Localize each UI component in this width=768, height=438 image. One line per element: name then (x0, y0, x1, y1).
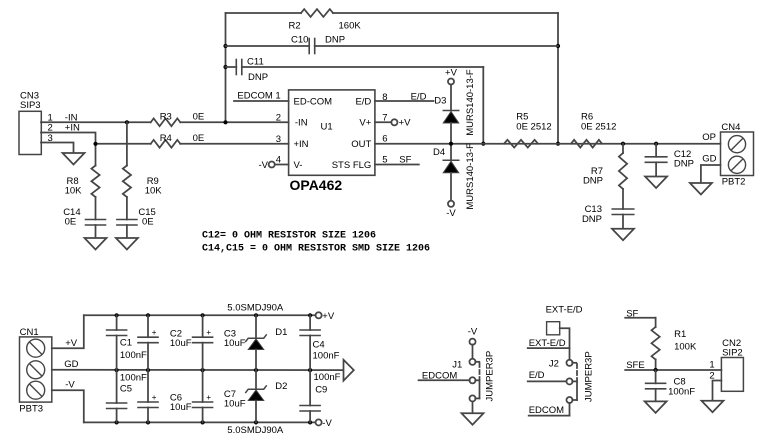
svg-text:OUT: OUT (351, 139, 371, 150)
svg-text:0E: 0E (193, 133, 205, 144)
svg-text:C1: C1 (120, 337, 132, 348)
svg-text:0E 2512: 0E 2512 (581, 121, 616, 132)
svg-text:D2: D2 (275, 381, 287, 392)
svg-text:V+: V+ (359, 117, 371, 128)
svg-text:EDCOM: EDCOM (529, 405, 564, 416)
svg-text:DNP: DNP (582, 214, 602, 225)
svg-text:C4: C4 (313, 340, 325, 351)
svg-text:-V: -V (322, 418, 332, 429)
svg-text:6: 6 (382, 134, 387, 145)
svg-text:+V: +V (399, 118, 412, 129)
svg-text:100K: 100K (674, 342, 697, 353)
svg-text:0E: 0E (142, 217, 154, 228)
svg-text:8: 8 (382, 92, 387, 103)
svg-text:0E: 0E (65, 217, 77, 228)
svg-text:+: + (152, 393, 157, 402)
svg-text:C10: C10 (291, 35, 308, 46)
svg-text:DNP: DNP (325, 35, 345, 46)
svg-text:CN1: CN1 (20, 327, 39, 338)
svg-text:5: 5 (382, 155, 387, 166)
svg-text:GD: GD (64, 359, 78, 370)
svg-text:0E 2512: 0E 2512 (516, 121, 551, 132)
svg-text:-V: -V (468, 327, 478, 338)
svg-text:ED-COM: ED-COM (294, 96, 333, 107)
svg-text:JUMPER3P: JUMPER3P (583, 351, 594, 402)
svg-text:100nF: 100nF (314, 372, 341, 383)
svg-text:+: + (206, 393, 211, 402)
svg-text:SIP2: SIP2 (722, 348, 743, 359)
svg-text:R3: R3 (160, 111, 172, 122)
svg-text:5.0SMDJ90A: 5.0SMDJ90A (227, 425, 284, 436)
svg-text:EXT-E/D: EXT-E/D (546, 305, 583, 316)
svg-text:5.0SMDJ90A: 5.0SMDJ90A (227, 303, 284, 314)
svg-text:160K: 160K (339, 21, 362, 32)
svg-text:U1: U1 (321, 122, 333, 133)
svg-text:7: 7 (382, 112, 387, 123)
svg-text:100nF: 100nF (120, 350, 147, 361)
svg-text:+: + (152, 328, 157, 337)
svg-text:D3: D3 (434, 96, 446, 107)
svg-text:R2: R2 (289, 21, 301, 32)
svg-text:+: + (206, 328, 211, 337)
svg-text:D1: D1 (275, 327, 287, 338)
svg-text:2: 2 (276, 112, 281, 123)
svg-text:3: 3 (48, 133, 53, 144)
svg-text:DNP: DNP (248, 72, 268, 83)
svg-text:1: 1 (709, 359, 714, 370)
svg-text:SF: SF (399, 155, 411, 166)
svg-text:10K: 10K (65, 185, 83, 196)
svg-text:CN4: CN4 (721, 122, 740, 133)
svg-text:OP: OP (702, 132, 716, 143)
svg-text:SF: SF (626, 309, 638, 320)
svg-text:10uF: 10uF (170, 402, 192, 413)
svg-text:C12= 0 OHM RESISTOR SIZE 1206: C12= 0 OHM RESISTOR SIZE 1206 (202, 231, 376, 242)
svg-text:V-: V- (294, 160, 303, 171)
svg-text:+V: +V (322, 311, 335, 322)
svg-text:-V: -V (259, 160, 269, 171)
svg-text:-IN: -IN (295, 117, 308, 128)
svg-text:EDCOM: EDCOM (422, 370, 457, 381)
svg-text:OPA462: OPA462 (290, 177, 343, 193)
svg-text:E/D: E/D (411, 91, 427, 102)
svg-text:3: 3 (276, 134, 281, 145)
svg-text:J1: J1 (452, 360, 462, 371)
svg-text:+IN: +IN (65, 123, 80, 134)
svg-text:SFE: SFE (626, 360, 644, 371)
svg-text:+IN: +IN (294, 139, 309, 150)
svg-text:C11: C11 (247, 57, 264, 68)
svg-text:MURS140-13-F: MURS140-13-F (465, 143, 476, 210)
svg-text:100nF: 100nF (313, 351, 340, 362)
svg-text:C5: C5 (120, 384, 132, 395)
svg-text:2: 2 (709, 370, 714, 381)
svg-text:-V: -V (446, 208, 456, 219)
svg-text:R1: R1 (674, 329, 686, 340)
svg-text:+V: +V (65, 338, 78, 349)
svg-text:DNP: DNP (674, 159, 694, 170)
svg-text:EXT-E/D: EXT-E/D (529, 338, 566, 349)
svg-text:GD: GD (702, 154, 716, 165)
svg-text:100nF: 100nF (668, 387, 695, 398)
svg-text:+V: +V (445, 68, 458, 79)
svg-text:PBT2: PBT2 (722, 177, 746, 188)
svg-text:D4: D4 (433, 147, 445, 158)
svg-text:-V: -V (65, 380, 75, 391)
svg-text:4: 4 (276, 155, 281, 166)
svg-text:PBT3: PBT3 (19, 403, 43, 414)
svg-text:E/D: E/D (355, 96, 371, 107)
svg-text:E/D: E/D (529, 370, 545, 381)
svg-text:10K: 10K (145, 185, 163, 196)
svg-text:R4: R4 (160, 133, 172, 144)
svg-text:J2: J2 (549, 358, 559, 369)
svg-text:C9: C9 (315, 385, 327, 396)
svg-text:10uF: 10uF (224, 338, 246, 349)
svg-text:0E: 0E (193, 111, 205, 122)
svg-text:100nF: 100nF (120, 373, 147, 384)
svg-text:C14,C15 = 0 OHM RESISTOR SMD S: C14,C15 = 0 OHM RESISTOR SMD SIZE 1206 (202, 244, 430, 255)
svg-text:10uF: 10uF (224, 399, 246, 410)
svg-text:DNP: DNP (583, 176, 603, 187)
svg-text:10uF: 10uF (170, 338, 192, 349)
svg-text:JUMPER3P: JUMPER3P (484, 351, 495, 402)
svg-text:EDCOM 1: EDCOM 1 (237, 90, 280, 101)
svg-text:STS FLG: STS FLG (332, 160, 372, 171)
svg-text:SIP3: SIP3 (20, 100, 41, 111)
svg-text:MURS140-13-F: MURS140-13-F (465, 69, 476, 136)
